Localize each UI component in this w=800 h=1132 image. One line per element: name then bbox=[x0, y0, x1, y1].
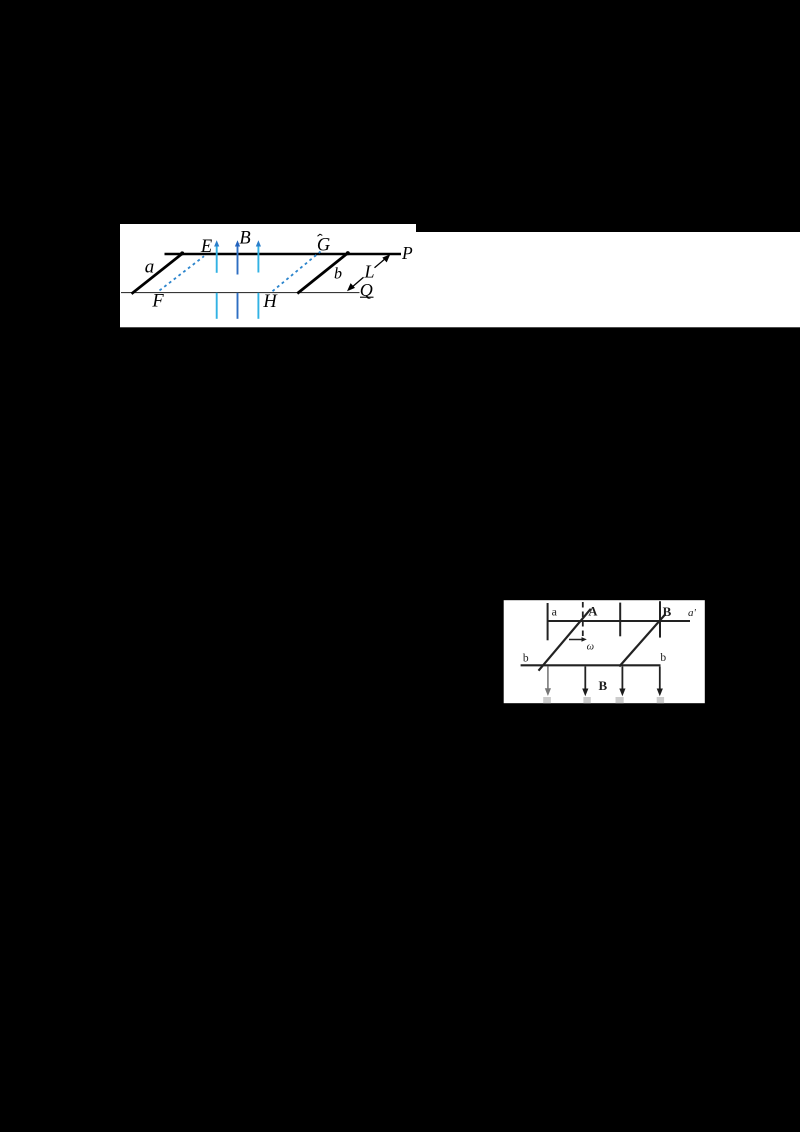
svg-text:L: L bbox=[363, 262, 374, 282]
svg-text:P: P bbox=[401, 243, 413, 263]
svg-text:a': a' bbox=[688, 607, 697, 619]
svg-text:ω: ω bbox=[587, 641, 594, 652]
svg-text:b: b bbox=[334, 266, 342, 283]
svg-text:F: F bbox=[151, 292, 164, 312]
svg-text:B: B bbox=[239, 229, 250, 249]
svg-text:H: H bbox=[262, 292, 278, 312]
svg-text:E: E bbox=[200, 237, 212, 257]
svg-text:a: a bbox=[145, 256, 155, 277]
svg-text:B: B bbox=[663, 604, 672, 619]
svg-text:B: B bbox=[598, 678, 607, 693]
svg-text:b: b bbox=[660, 652, 666, 664]
svg-text:G: G bbox=[317, 236, 330, 256]
svg-text:a: a bbox=[552, 604, 558, 618]
svg-text:Q: Q bbox=[360, 280, 373, 300]
svg-text:b: b bbox=[523, 653, 529, 665]
svg-text:A: A bbox=[588, 604, 597, 618]
